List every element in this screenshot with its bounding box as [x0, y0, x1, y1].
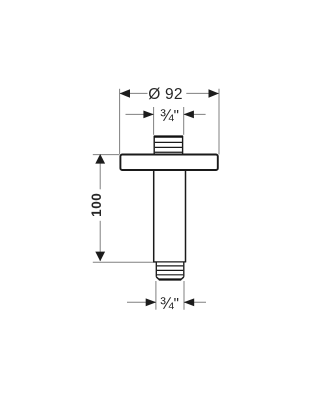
pipe: bottom step line	[153, 261, 186, 263]
dimension top 3/4": extension line right	[183, 107, 185, 135]
top thread: top edge thick	[154, 135, 183, 137]
bottom thread: crest line 1	[157, 265, 183, 267]
svg-text:¾: ¾	[160, 295, 174, 313]
top thread: crest line 1	[155, 141, 182, 143]
svg-text:¾: ¾	[160, 107, 174, 125]
bottom thread: right chamfer	[181, 277, 184, 280]
svg-text:Ø 92: Ø 92	[148, 86, 182, 103]
dimension 100: extension line bottom	[93, 261, 157, 263]
dimension D92: left arrow	[120, 89, 130, 98]
dimension D92: dimension line left segment	[120, 92, 148, 94]
dimension 100: dimension line upper segment	[99, 155, 101, 189]
dimension top 3/4": right arrow	[183, 111, 194, 119]
dimension bottom 3/4": extension line left	[155, 281, 157, 310]
top thread: right side	[182, 136, 184, 155]
pipe: right wall	[185, 171, 187, 262]
dimension 100: extension line top	[93, 154, 119, 156]
bottom thread: left chamfer	[156, 277, 159, 280]
svg-text:": "	[174, 295, 179, 312]
dimension D92: extension line right	[218, 89, 220, 155]
bottom thread: left side	[155, 262, 157, 277]
dimension top 3/4": left arrow	[143, 111, 154, 119]
bottom thread: crest line 2	[157, 269, 183, 271]
dimension bottom 3/4": extension line right	[183, 281, 185, 310]
svg-text:100: 100	[89, 193, 104, 217]
flange	[120, 155, 217, 171]
dimension top 3/4": left tail line	[126, 113, 154, 115]
dimension bottom 3/4": right tail line	[184, 301, 206, 303]
bottom thread: right side	[183, 262, 185, 277]
dimension D92: dimension line right segment	[186, 92, 219, 94]
bottom thread: crest line 3	[157, 274, 183, 276]
dimension D92: right arrow	[209, 89, 219, 98]
dimension D92: extension line left	[119, 89, 121, 155]
dimension 100: bottom arrow	[95, 252, 105, 262]
top thread: left side	[153, 136, 155, 155]
top thread: crest line 3	[155, 151, 182, 153]
dimension top 3/4": right tail line	[184, 113, 206, 115]
dimension 100: top arrow	[95, 154, 105, 164]
top thread: crest line 2	[155, 146, 182, 148]
dimension bottom 3/4": right arrow	[184, 298, 195, 306]
dimension bottom 3/4": left arrow	[146, 298, 157, 306]
bottom thread: bottom edge thick	[159, 278, 181, 280]
dimension bottom 3/4": left tail line	[127, 301, 156, 303]
svg-text:": "	[174, 107, 179, 124]
dimension 100: dimension line lower segment	[99, 221, 101, 261]
dimension top 3/4": extension line left	[153, 107, 155, 135]
pipe: left wall	[153, 171, 155, 262]
